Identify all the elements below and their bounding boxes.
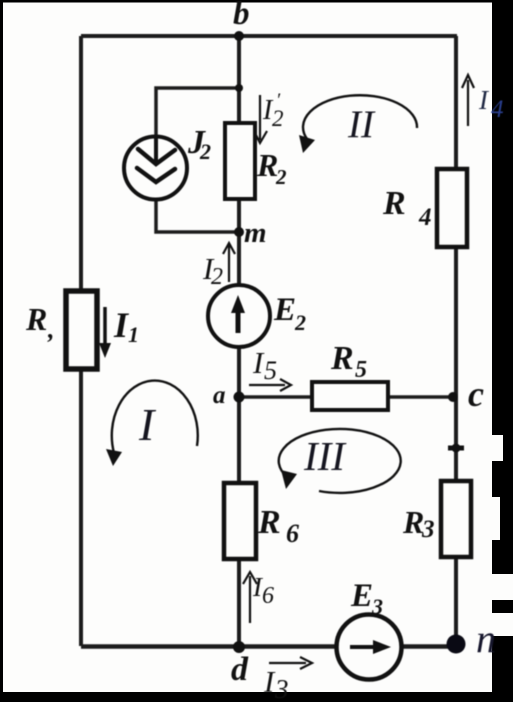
wire left branch [79,36,83,646]
current arrow I2 [202,243,235,290]
svg-text:4: 4 [491,96,504,123]
svg-text:,: , [47,315,55,344]
svg-text:E: E [350,578,373,614]
svg-text:R: R [330,340,354,377]
current arrow I3 [263,657,312,702]
node d [231,641,249,688]
svg-text:R: R [382,185,406,222]
svg-text:d: d [231,651,249,688]
resistor R4 [382,169,467,247]
wire bottom rail [81,644,456,649]
node junction below c [448,444,464,453]
svg-text:2: 2 [294,310,306,335]
svg-text:2: 2 [275,165,287,189]
node c [448,374,484,414]
node junction J2 top [235,84,243,92]
svg-text:6: 6 [286,519,299,548]
svg-text:2: 2 [272,106,284,131]
svg-text:3: 3 [274,674,289,702]
node a [213,382,245,409]
svg-text:6: 6 [262,583,274,609]
loop arrow II [299,95,417,153]
svg-text:c: c [468,374,484,414]
svg-text:n: n [476,616,496,661]
svg-text:R: R [256,147,278,183]
wire a to c [239,395,456,399]
svg-text:II: II [347,103,376,146]
svg-text:R: R [257,504,281,541]
svg-text:2: 2 [211,264,223,290]
svg-text:3: 3 [421,516,435,543]
resistor R1 [25,291,97,369]
svg-text:2: 2 [199,139,211,164]
svg-text:a: a [213,382,226,409]
svg-text:R: R [25,301,47,337]
voltage source E2 [208,285,306,347]
node n [447,616,497,661]
svg-text:3: 3 [371,594,383,619]
resistor R2 [225,123,287,199]
svg-text:1: 1 [128,322,139,347]
current arrow I6 [243,572,274,623]
svg-text:4: 4 [418,204,432,231]
node b [233,0,250,41]
voltage source E3 [337,578,402,680]
svg-text:5: 5 [264,356,277,385]
current arrow I1 [99,305,139,358]
wire right branch [454,36,458,645]
resistor R5 [312,340,388,410]
current arrow I'2 [254,90,284,143]
current arrow I4 [462,75,504,126]
svg-text:5: 5 [355,357,367,383]
wire center branch [237,36,241,646]
current arrow I5 [249,345,291,391]
resistor R6 [224,483,299,559]
svg-text:b: b [233,0,250,32]
svg-text:III: III [303,433,347,479]
wire top b rail [81,34,457,38]
svg-text:E: E [273,292,296,328]
resistor R3 [402,481,471,557]
loop arrow I [106,381,198,466]
wire J2 parallel branch [156,88,239,232]
svg-text:R: R [402,504,424,540]
svg-text:I: I [138,399,157,450]
svg-text:m: m [244,217,267,249]
loop arrow III [279,429,401,493]
node m [234,217,267,249]
current source J2 [124,124,211,200]
